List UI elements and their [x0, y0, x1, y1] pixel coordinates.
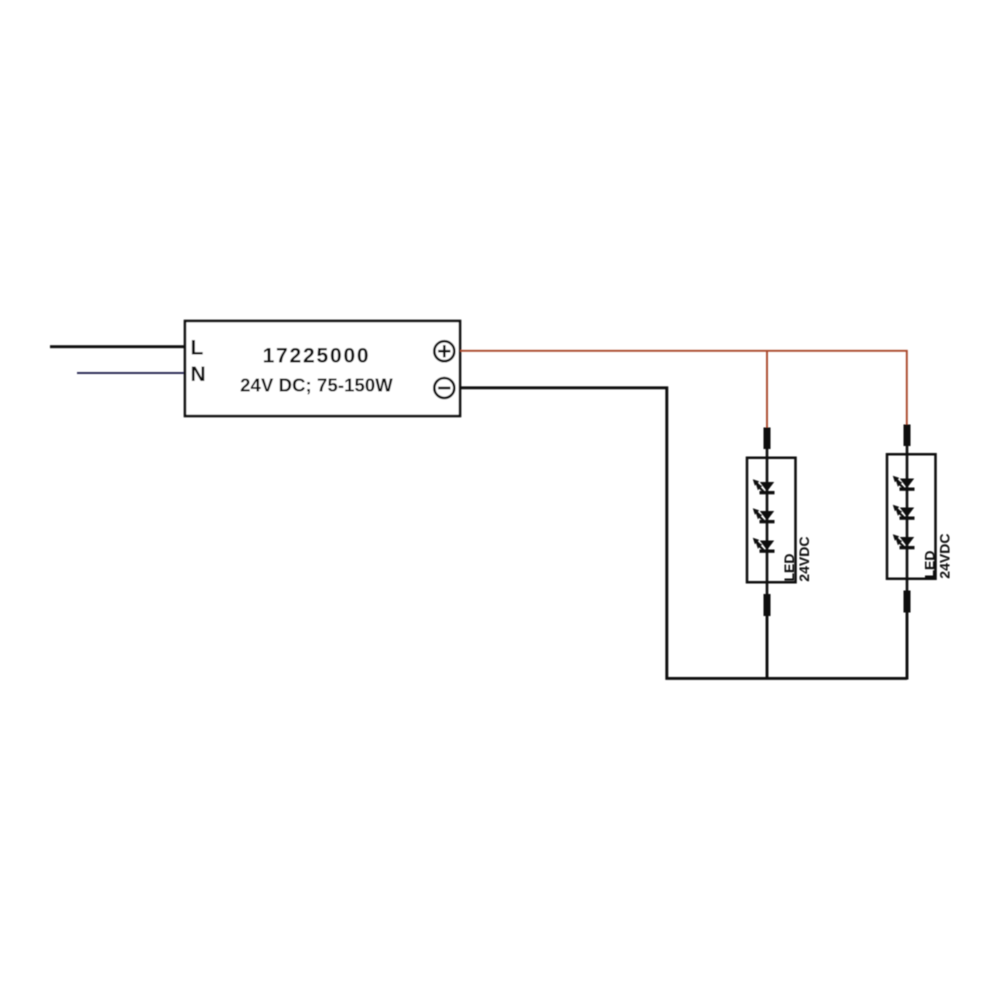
M1 top connector ferrule [764, 428, 771, 450]
wire 0V return (black, minus bus) [460, 388, 907, 679]
wire N (mains neutral, blue) [77, 372, 185, 374]
M2 LED D1 [893, 476, 915, 491]
M1 LED D2 [753, 508, 775, 523]
power supply U1 box [185, 321, 460, 416]
M2 internal wire [906, 455, 909, 580]
terminal + (plus output) [434, 341, 454, 361]
svg-text:24VDC: 24VDC [937, 534, 953, 579]
M1 wire to minus bus [766, 616, 769, 680]
M2 wire ferrule to box [906, 446, 909, 455]
svg-text:LED: LED [781, 554, 797, 582]
wire +24V (red, to LED module 2) [460, 351, 907, 425]
svg-text:N: N [191, 363, 206, 386]
M1 bottom connector ferrule [764, 594, 771, 616]
LED module M2 [887, 425, 953, 680]
M1 internal wire [766, 458, 769, 583]
M1 wire ferrule to box [766, 449, 769, 458]
M2 top connector ferrule [904, 425, 911, 447]
wire L (mains line, black) [50, 345, 185, 348]
svg-text:L: L [191, 336, 204, 359]
M2 wire box to bottom ferrule [906, 580, 909, 592]
M1 LED D1 [753, 479, 775, 494]
LED module M1 [747, 428, 812, 680]
M2 wire to minus bus [906, 613, 909, 680]
M2 bottom connector ferrule [904, 591, 911, 613]
svg-text:LED: LED [922, 551, 938, 579]
M1 box outline [747, 458, 796, 583]
svg-text:24VDC: 24VDC [796, 537, 812, 582]
svg-text:17225000: 17225000 [263, 345, 371, 368]
M2 LED D3 [893, 534, 915, 549]
M1 wire box to bottom ferrule [766, 583, 769, 595]
terminal - (minus output) [434, 378, 454, 398]
M1 LED D3 [753, 538, 775, 553]
wire +24V branch (red, down to LED module 1) [766, 351, 768, 428]
M2 box outline [887, 454, 936, 579]
M2 LED D2 [893, 505, 915, 520]
svg-text:24V DC; 75-150W: 24V DC; 75-150W [240, 374, 393, 395]
